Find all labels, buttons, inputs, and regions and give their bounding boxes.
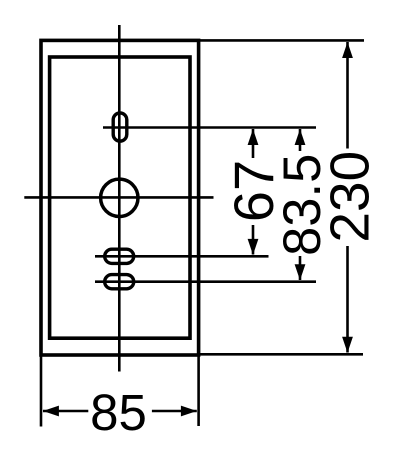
- dimension 230 lower shaft: [346, 246, 349, 353]
- dimension 83.5 upper arrowhead: [295, 129, 306, 145]
- right extension line for 85: [197, 350, 200, 426]
- dimension 230 lower arrowhead: [342, 337, 353, 353]
- lower slot 1 (horizontal oval): [105, 249, 134, 263]
- left extension line for 85: [40, 350, 43, 427]
- dimension 230 upper arrowhead: [342, 42, 353, 58]
- horizontal line through top slot: [103, 126, 316, 129]
- dimension 85 right arrowhead: [181, 406, 197, 417]
- center wiring hole (circle): [101, 179, 138, 216]
- horizontal line through lower slot 2: [95, 280, 316, 283]
- svg-text:85: 85: [90, 384, 147, 441]
- horizontal line through circle: [24, 196, 213, 199]
- vertical centerline: [118, 25, 121, 372]
- horizontal line through lower slot 1: [95, 255, 269, 258]
- bottom extension line for 230: [199, 353, 363, 356]
- top mounting slot (vertical oval): [113, 113, 127, 141]
- dimension 67 upper shaft: [252, 129, 255, 158]
- dimension 230 upper shaft: [346, 42, 349, 149]
- dimension 85 left shaft: [43, 410, 88, 413]
- dimension 85 right shaft: [152, 410, 197, 413]
- dimension 83.5 upper shaft: [299, 129, 302, 151]
- dimension 67 lower arrowhead: [248, 239, 259, 255]
- outer plate outline: [41, 40, 199, 355]
- svg-text:230: 230: [319, 151, 381, 243]
- dimension 67 lower shaft: [252, 225, 255, 255]
- top extension line for 230: [199, 39, 364, 42]
- dimension 83.5 lower shaft: [299, 256, 302, 280]
- dimension 85 left arrowhead: [43, 406, 59, 417]
- dimension 67 upper arrowhead: [248, 129, 259, 145]
- inner panel outline: [50, 57, 190, 338]
- lower slot 2 (horizontal oval): [105, 275, 134, 289]
- dimension 83.5 lower arrowhead: [295, 264, 306, 280]
